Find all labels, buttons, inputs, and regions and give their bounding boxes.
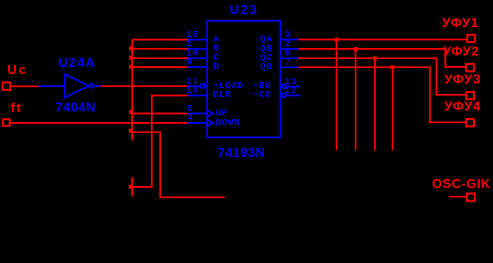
pin B stub	[186, 39, 219, 54]
value label 74193N	[218, 145, 266, 160]
pin QC stub	[260, 49, 298, 64]
value label 7404N	[56, 99, 96, 114]
svg-text:74193N: 74193N	[218, 145, 266, 160]
pin D stub	[186, 58, 219, 73]
svg-text:CLR: CLR	[213, 90, 231, 100]
svg-text:QD: QD	[260, 62, 272, 72]
wire to pin D	[132, 66, 188, 68]
port Uc	[3, 62, 29, 90]
svg-text:Uc: Uc	[7, 62, 28, 77]
svg-text:УФУ1: УФУ1	[442, 15, 479, 30]
pin ~BO stub	[253, 77, 300, 91]
node QA-drop	[335, 38, 339, 42]
svg-text:U24A: U24A	[58, 55, 96, 70]
wire QA drop vertical	[336, 40, 338, 151]
pin UP stub	[188, 104, 228, 119]
wire to pin A	[132, 39, 188, 41]
wire QB drop vertical	[355, 49, 357, 150]
label U23	[230, 2, 259, 17]
node bus-C	[129, 56, 133, 60]
svg-text:12: 12	[285, 86, 297, 96]
svg-text:7404N: 7404N	[56, 99, 96, 114]
wire inverter output to ~LOAD	[101, 85, 188, 87]
port UFU1	[442, 15, 479, 42]
node CLR-stub	[129, 185, 133, 189]
wire QC drop vertical	[374, 58, 376, 150]
op-amp U23 body	[207, 21, 280, 138]
port UFU3	[444, 72, 481, 100]
pin CLR stub	[186, 86, 231, 100]
svg-text:УФУ2: УФУ2	[443, 44, 480, 59]
port UFU4	[444, 99, 481, 127]
wire QD drop vertical	[392, 67, 394, 150]
node QD-drop	[391, 65, 395, 69]
svg-text:D: D	[214, 62, 220, 72]
svg-text:4: 4	[188, 113, 194, 123]
node bus-B	[129, 46, 133, 50]
svg-text:OSC-GIK: OSC-GIK	[432, 176, 491, 191]
pin QB stub	[260, 39, 298, 54]
port OSC-GIK	[432, 176, 491, 201]
svg-text:УФУ3: УФУ3	[444, 72, 481, 87]
wire to pin C	[132, 57, 188, 59]
wire QC to UFU3	[298, 58, 466, 95]
wire QD to UFU4	[298, 67, 466, 122]
pin ~CO stub	[253, 86, 300, 100]
svg-text:U23: U23	[230, 2, 259, 17]
wire stub lower	[131, 178, 133, 197]
label U24A	[58, 55, 96, 70]
svg-text:~CO: ~CO	[253, 90, 271, 100]
pin ~LOAD stub	[186, 76, 243, 91]
node bus-branch	[129, 129, 133, 133]
svg-text:14: 14	[186, 86, 198, 96]
wire Uc to inverter input	[11, 85, 38, 87]
svg-text:УФУ4: УФУ4	[444, 99, 481, 114]
node QC-drop	[373, 56, 377, 60]
pin A stub	[186, 30, 219, 45]
node QB-drop	[354, 47, 358, 51]
wire to pin UP	[132, 113, 188, 115]
inverter U24A	[39, 74, 101, 97]
port ft	[3, 100, 22, 126]
pin QD stub	[260, 58, 298, 73]
wire to pin B	[132, 48, 188, 50]
pin QA stub	[260, 30, 298, 45]
svg-text:ft: ft	[11, 100, 23, 115]
wire bus branch down	[132, 132, 225, 197]
wire QA to UFU1	[298, 39, 466, 41]
pin DOWN stub	[188, 113, 241, 128]
node bus-D	[129, 65, 133, 69]
svg-text:5: 5	[188, 104, 194, 114]
wire CLR return	[132, 96, 188, 187]
svg-text:DOWN: DOWN	[216, 118, 241, 128]
wire ft to DOWN pin	[11, 122, 188, 124]
node bus-UP	[129, 110, 133, 114]
wire OSC-GIK stub	[449, 196, 467, 198]
wire QB to UFU2	[298, 49, 466, 67]
wire bus vertical	[131, 40, 133, 141]
svg-text:7: 7	[285, 58, 291, 68]
port UFU2	[443, 44, 480, 72]
pin C stub	[186, 49, 219, 64]
